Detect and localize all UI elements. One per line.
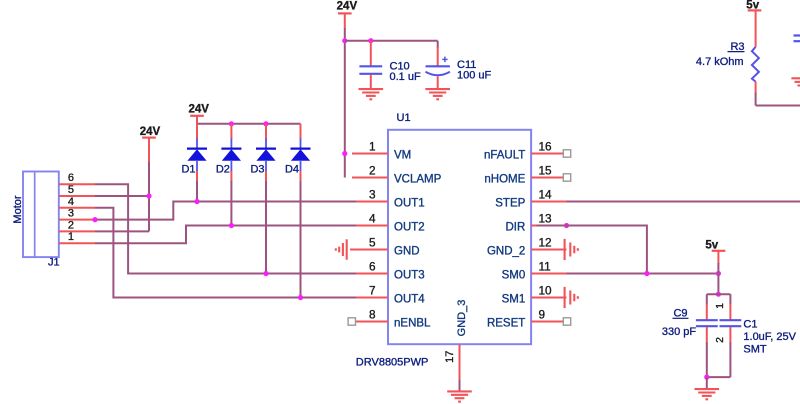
svg-text:J1: J1 — [48, 257, 60, 269]
svg-text:4.7 kOhm: 4.7 kOhm — [696, 56, 744, 68]
svg-text:24V: 24V — [188, 103, 209, 115]
svg-text:1: 1 — [68, 231, 74, 243]
svg-text:8: 8 — [369, 307, 376, 321]
svg-text:2: 2 — [68, 219, 74, 231]
svg-text:nHOME: nHOME — [484, 174, 525, 186]
svg-text:1: 1 — [714, 303, 726, 309]
svg-text:6: 6 — [68, 172, 74, 184]
svg-text:1: 1 — [369, 139, 376, 153]
svg-text:4: 4 — [68, 196, 74, 208]
svg-text:D4: D4 — [285, 163, 299, 175]
svg-text:100 uF: 100 uF — [457, 70, 492, 82]
svg-text:16: 16 — [539, 139, 553, 153]
svg-text:VCLAMP: VCLAMP — [394, 174, 442, 186]
svg-text:2: 2 — [714, 337, 726, 343]
svg-text:5: 5 — [369, 235, 376, 249]
svg-text:15: 15 — [539, 163, 553, 177]
svg-text:3: 3 — [68, 208, 74, 220]
svg-text:D3: D3 — [250, 163, 264, 175]
svg-text:OUT4: OUT4 — [394, 294, 425, 306]
svg-text:1.0uF, 25V: 1.0uF, 25V — [743, 331, 796, 343]
svg-text:OUT3: OUT3 — [394, 270, 425, 282]
svg-text:nENBL: nENBL — [394, 318, 431, 330]
svg-text:5v: 5v — [705, 239, 718, 251]
svg-text:DRV8805PWP: DRV8805PWP — [356, 357, 429, 369]
svg-text:GND_2: GND_2 — [487, 246, 525, 258]
svg-text:10: 10 — [539, 283, 553, 297]
svg-text:VM: VM — [394, 150, 411, 162]
svg-text:2: 2 — [369, 163, 376, 177]
svg-text:14: 14 — [539, 187, 553, 201]
svg-text:5: 5 — [68, 184, 74, 196]
svg-text:C1: C1 — [743, 319, 757, 331]
svg-text:11: 11 — [539, 259, 551, 273]
svg-text:24V: 24V — [140, 126, 161, 138]
svg-text:D2: D2 — [216, 163, 230, 175]
svg-text:24V: 24V — [337, 1, 358, 13]
svg-text:5v: 5v — [746, 0, 759, 12]
svg-text:0.1 uF: 0.1 uF — [390, 71, 421, 83]
svg-text:OUT1: OUT1 — [394, 198, 425, 210]
svg-text:nFAULT: nFAULT — [484, 150, 525, 162]
svg-text:D1: D1 — [181, 163, 195, 175]
svg-text:12: 12 — [539, 235, 552, 249]
svg-text:+: + — [442, 55, 448, 66]
svg-text:OUT2: OUT2 — [394, 222, 425, 234]
svg-text:330 pF: 330 pF — [662, 326, 697, 338]
svg-text:SMT: SMT — [743, 343, 767, 355]
svg-text:SM1: SM1 — [502, 294, 526, 306]
svg-text:DIR: DIR — [505, 222, 525, 234]
svg-text:9: 9 — [539, 307, 546, 321]
svg-text:U1: U1 — [397, 112, 411, 124]
svg-text:RESET: RESET — [487, 318, 525, 330]
svg-text:7: 7 — [369, 283, 376, 297]
svg-text:GND_3: GND_3 — [456, 300, 468, 337]
svg-text:SM0: SM0 — [502, 270, 526, 282]
svg-text:4: 4 — [369, 211, 376, 225]
svg-text:3: 3 — [369, 187, 376, 201]
svg-text:GND: GND — [394, 246, 420, 258]
svg-text:Motor: Motor — [12, 195, 24, 223]
svg-text:6: 6 — [369, 259, 376, 273]
svg-text:13: 13 — [539, 211, 553, 225]
svg-text:17: 17 — [444, 351, 456, 363]
svg-text:STEP: STEP — [495, 198, 525, 210]
